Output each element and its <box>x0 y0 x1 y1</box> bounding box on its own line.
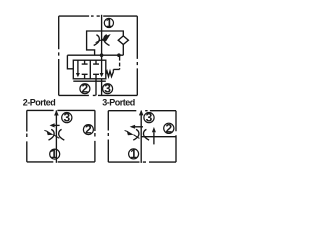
3-ported adjustable arrow tip line <box>134 135 140 139</box>
2-ported outlet arrow head <box>54 110 59 115</box>
2-ported compensator arrow <box>53 124 60 126</box>
2-ported main wire <box>55 110 57 162</box>
envelope left edge <box>58 16 60 95</box>
3-ported bypass branch wire <box>141 136 176 138</box>
check valve lower wire <box>122 45 124 56</box>
3-ported orifice right arc <box>143 129 149 140</box>
left pilot wire <box>67 55 73 69</box>
3-ported main wire <box>140 111 142 163</box>
svg-text:1: 1 <box>106 16 113 30</box>
left position flow arrow <box>77 60 79 73</box>
svg-text:3: 3 <box>104 82 111 96</box>
port 3 wire <box>101 79 103 96</box>
2-ported envelope left edge <box>26 110 28 161</box>
pilot junction wire <box>67 54 123 56</box>
compensator box outline <box>87 31 124 55</box>
svg-text:1: 1 <box>130 147 137 161</box>
2-ported adjustable arrow head <box>46 130 53 135</box>
envelope bottom edge <box>59 94 138 96</box>
2-ported envelope right edge <box>94 110 96 161</box>
2-ported port 2 circle <box>83 125 93 135</box>
svg-text:2: 2 <box>85 123 92 137</box>
3-ported envelope right edge <box>175 111 177 162</box>
3-ported port 1 circle <box>129 149 139 159</box>
spool valve position divider <box>89 60 91 79</box>
2-ported envelope top edge <box>27 109 95 111</box>
port 2 circle <box>80 84 90 94</box>
svg-text:3: 3 <box>63 111 70 125</box>
2-ported adjustable arrow tip line <box>53 135 59 139</box>
svg-text:2: 2 <box>82 82 89 96</box>
3-ported compensator arrow <box>134 126 143 128</box>
2-ported port 3 circle <box>62 113 72 123</box>
right position blocked port bottom <box>93 74 99 79</box>
3-ported envelope bottom edge <box>108 161 176 163</box>
2-ported envelope bottom edge <box>27 161 95 163</box>
adjustable arrow head <box>101 34 111 41</box>
3-ported port 3 circle <box>144 113 154 123</box>
port 3 circle <box>103 84 113 94</box>
svg-text:3-Ported: 3-Ported <box>102 98 135 108</box>
svg-text:2: 2 <box>165 121 172 135</box>
envelope right edge <box>136 16 138 95</box>
2-ported orifice left arc <box>49 129 55 140</box>
left position blocked port top <box>82 60 88 64</box>
2-ported orifice right arc <box>59 129 65 140</box>
3-ported envelope left edge <box>107 111 109 162</box>
port 1 riser wire <box>101 15 103 60</box>
3-ported adjustable arrow tail <box>125 130 128 131</box>
envelope (valve boundary, dash-dot) top edge <box>59 15 138 17</box>
3-ported outlet arrow head <box>139 110 144 115</box>
2-ported adjustable arrow tail <box>44 130 47 131</box>
check valve diamond <box>118 36 128 45</box>
3-ported port 2 circle <box>164 123 174 133</box>
port 2 wire <box>95 79 97 96</box>
3-ported bypass arrow <box>153 132 155 144</box>
right position blocked port top <box>93 60 99 64</box>
3-ported envelope top edge <box>108 110 176 112</box>
3-ported adjustable arrow head <box>127 131 134 136</box>
spool valve body <box>73 60 106 79</box>
left position blocked port bottom <box>82 74 88 79</box>
junction dot A <box>100 53 104 57</box>
port 1 circle <box>104 18 113 27</box>
svg-text:3: 3 <box>146 111 153 125</box>
svg-text:2-Ported: 2-Ported <box>23 98 56 108</box>
right position flow arrow <box>101 60 103 73</box>
2-ported port 1 circle <box>50 149 60 159</box>
spring <box>106 71 114 76</box>
orifice left arc <box>94 35 100 46</box>
pilot sense dashed wire <box>113 57 119 72</box>
junction dot B <box>117 53 121 57</box>
port number digits <box>51 16 173 161</box>
spool valve lower rail line <box>73 80 106 82</box>
adjustable arrow (tail) <box>96 39 104 43</box>
orifice right arc <box>104 35 110 46</box>
3-ported orifice left arc <box>133 129 139 140</box>
svg-text:1: 1 <box>51 147 58 161</box>
